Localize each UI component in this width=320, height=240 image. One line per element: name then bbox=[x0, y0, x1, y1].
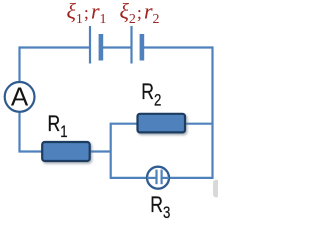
battery cell E1 (xi1;r1) short thick plate bbox=[99, 34, 104, 61]
wire: top-left loop (top wire left segment, left vertical, R1 row wire) bbox=[20, 48, 111, 152]
R3 inner lead right bbox=[162, 177, 169, 179]
battery cell E2 (xi2;r2) long plate bbox=[130, 26, 132, 64]
battery cell E2 (xi2;r2) short thick plate bbox=[140, 34, 145, 61]
resistor R1 body bbox=[42, 142, 89, 161]
svg-text:R1: R1 bbox=[48, 112, 68, 142]
svg-text:R3: R3 bbox=[150, 193, 170, 223]
label R3 bbox=[150, 193, 170, 223]
svg-text:R2: R2 bbox=[141, 80, 161, 110]
svg-text:ξ2;r2: ξ2;r2 bbox=[120, 0, 160, 27]
device R3 body circle bbox=[147, 167, 169, 189]
wire: segment between battery cells bbox=[103, 46, 131, 48]
svg-text:A: A bbox=[11, 81, 29, 111]
wire: top wire right segment, right vertical, R3 row right segment bbox=[144, 48, 213, 178]
ammeter A body circle bbox=[5, 82, 35, 112]
battery cell E1 (xi1;r1) long plate bbox=[89, 26, 91, 64]
resistor R2 body bbox=[138, 114, 186, 133]
R3 inner bar right bbox=[161, 170, 163, 185]
wire: R3 row left segment, junction vertical, R2 row wire bbox=[111, 124, 213, 178]
svg-text:ξ1;r1: ξ1;r1 bbox=[67, 0, 107, 27]
label R2 bbox=[141, 80, 161, 110]
R3 inner lead left bbox=[147, 177, 156, 179]
label R1 bbox=[48, 112, 68, 142]
scrollbar fragment bottom right bbox=[213, 180, 220, 198]
R3 inner bar left bbox=[155, 170, 157, 185]
